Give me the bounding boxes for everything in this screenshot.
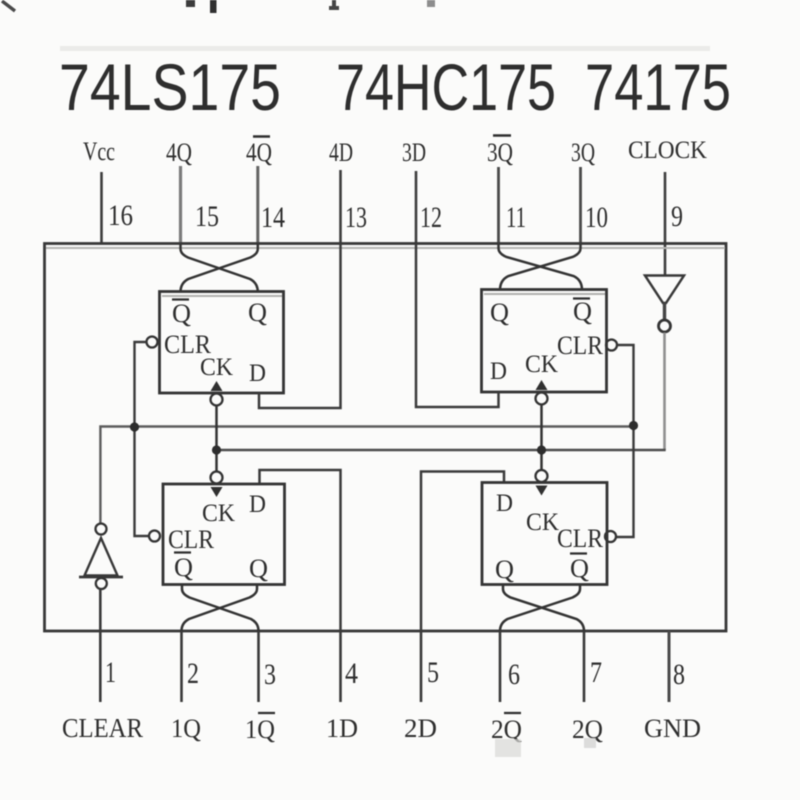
wire X FF2.Qbar to pin6	[500, 585, 580, 632]
FF2 CLR bubble	[605, 531, 616, 542]
wire X FF1.Qbar to pin3	[182, 585, 259, 632]
pin 3 lead	[257, 631, 260, 702]
pin 13 lead	[339, 170, 342, 244]
svg-text:Vcc: Vcc	[83, 137, 115, 166]
FF3 CK bubble	[536, 393, 548, 405]
pin 4 lead	[339, 631, 342, 702]
svg-text:1: 1	[105, 656, 116, 689]
svg-text:Q: Q	[174, 553, 193, 582]
svg-text:74HC175: 74HC175	[336, 50, 556, 124]
svg-text:CK: CK	[525, 351, 558, 378]
svg-text:2: 2	[187, 657, 199, 690]
svg-text:CK: CK	[202, 500, 235, 527]
svg-text:Q: Q	[570, 554, 589, 583]
flip-flop FF1 box	[163, 484, 285, 585]
wire pin4 to FF1.D	[260, 470, 341, 631]
FF2 clock edge marker	[536, 486, 548, 496]
FF3 clock edge marker	[536, 380, 548, 390]
svg-text:1D: 1D	[326, 714, 358, 743]
svg-text:D: D	[496, 490, 513, 517]
wire X 3Qbar to FF3.Qbar	[499, 244, 583, 290]
inverter U-CLOCK	[645, 276, 684, 304]
svg-text:74LS175: 74LS175	[59, 50, 281, 124]
wire X FF1.Q to pin2	[182, 585, 258, 632]
wire FF4.CLR drop	[135, 342, 150, 536]
svg-text:8: 8	[673, 658, 685, 691]
svg-text:15: 15	[195, 200, 219, 233]
svg-text:13: 13	[345, 201, 367, 234]
svg-text:D: D	[249, 360, 266, 387]
flip-flop FF2 box	[482, 483, 607, 585]
svg-text:10: 10	[585, 201, 608, 234]
junction clear-left	[130, 422, 139, 431]
svg-text:9: 9	[671, 200, 683, 233]
FF4 CK bubble	[211, 394, 223, 406]
svg-text:12: 12	[420, 201, 442, 234]
inverter U-CLEAR	[85, 538, 118, 576]
svg-text:4Q: 4Q	[246, 138, 272, 167]
svg-text:6: 6	[508, 658, 520, 691]
pin 5 lead	[420, 631, 423, 702]
pin 14 lead	[256, 166, 259, 244]
FF2 CK bubble	[536, 470, 548, 482]
wire X 4Qbar to FF4.Qbar	[181, 244, 258, 292]
flip-flop FF3 box	[482, 290, 607, 393]
U-CLOCK output bubble	[659, 320, 671, 332]
svg-text:14: 14	[261, 201, 285, 234]
svg-text:Q: Q	[573, 297, 592, 326]
wire FF4.D to pin13	[259, 244, 341, 408]
faint scan smudge bottom-2	[584, 738, 596, 748]
wire pin1 to clear inverter	[99, 589, 102, 631]
svg-text:4D: 4D	[329, 138, 353, 167]
svg-text:CLR: CLR	[557, 331, 604, 360]
FF4 CLR bubble	[147, 337, 158, 348]
stray cut glyph top-left	[2, 1, 15, 11]
svg-text:5: 5	[427, 656, 439, 689]
wire clock vertical right	[540, 405, 543, 471]
svg-text:CK: CK	[526, 509, 559, 536]
svg-text:D: D	[249, 491, 266, 518]
svg-text:CK: CK	[200, 354, 233, 381]
svg-text:Q: Q	[495, 555, 514, 584]
stray cut glyph gray blob	[427, 0, 435, 7]
svg-text:Q: Q	[248, 298, 267, 327]
svg-text:CLOCK: CLOCK	[628, 137, 707, 164]
junction clock-left	[212, 445, 221, 454]
svg-text:4Q: 4Q	[166, 138, 192, 167]
svg-text:3Q: 3Q	[487, 138, 513, 167]
svg-text:CLR: CLR	[168, 525, 215, 554]
svg-text:GND: GND	[644, 714, 701, 743]
pin 6 lead	[499, 631, 502, 702]
pin 9 lead	[664, 172, 667, 276]
wire X 4Q to FF4.Q	[181, 244, 258, 292]
pin 7 lead	[583, 631, 586, 702]
pin 11 lead	[497, 167, 500, 244]
svg-text:1Q: 1Q	[171, 714, 201, 743]
svg-text:7: 7	[590, 656, 602, 689]
svg-text:11: 11	[506, 201, 526, 234]
pin 15 lead	[179, 166, 182, 244]
pin 1 lead	[99, 631, 102, 702]
wire X 3Q to FF3.Q	[500, 244, 581, 290]
faint scan smudge row	[60, 46, 710, 51]
faint scan smudge bottom-1	[495, 739, 521, 757]
FF3 CLR bubble	[606, 340, 617, 351]
stray cut glyph serif bar	[329, 0, 339, 8]
svg-text:CLEAR: CLEAR	[62, 713, 143, 743]
svg-text:Q: Q	[172, 299, 191, 328]
U-CLEAR output bubble	[96, 524, 107, 535]
wire FF3.D to pin12	[416, 244, 499, 407]
FF1 clock edge marker	[211, 487, 223, 497]
FF4 clock edge marker	[211, 381, 223, 391]
junction clock-right	[537, 445, 546, 454]
package top edge scan shadow	[46, 247, 725, 249]
IC package outline	[45, 244, 727, 632]
wire CLEAR distribution	[100, 427, 633, 524]
FF1 CK bubble	[211, 472, 223, 484]
svg-text:Q: Q	[249, 554, 268, 583]
U-CLEAR input bubble	[96, 578, 107, 589]
svg-text:3D: 3D	[402, 138, 426, 167]
pin 12 lead	[415, 171, 418, 244]
svg-text:2D: 2D	[404, 714, 437, 743]
wire clock vertical left	[215, 406, 218, 472]
svg-text:3Q: 3Q	[571, 138, 595, 167]
svg-text:D: D	[490, 358, 507, 385]
wire CLOCK distribution	[217, 449, 666, 452]
svg-text:4: 4	[345, 657, 358, 690]
svg-text:Q: Q	[490, 298, 509, 327]
pin 16 lead	[100, 172, 103, 244]
svg-text:1Q: 1Q	[245, 715, 275, 744]
pin 10 lead	[579, 167, 582, 244]
wire FF3.CLR drop	[616, 345, 634, 537]
pin 2 lead	[180, 631, 183, 702]
flip-flop FF4 box	[160, 292, 284, 394]
stray cut glyph dot	[186, 0, 195, 7]
svg-text:74175: 74175	[585, 50, 731, 124]
svg-text:3: 3	[264, 658, 276, 691]
svg-text:CLR: CLR	[557, 524, 604, 553]
stray cut glyph bar	[210, 0, 217, 13]
pin 8 lead	[668, 631, 671, 702]
wire X FF2.Q to pin7	[503, 585, 584, 632]
junction clear-right	[629, 421, 638, 430]
svg-text:16: 16	[108, 199, 133, 232]
wire pin5 to FF2.D	[421, 472, 504, 632]
FF1 CLR bubble	[149, 531, 160, 542]
wire clock inverter output	[663, 333, 666, 451]
